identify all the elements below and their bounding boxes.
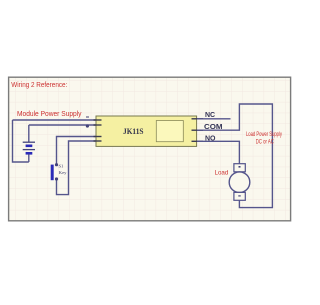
module inner box xyxy=(156,121,183,142)
dash mark after label xyxy=(86,116,89,118)
pin COM right xyxy=(192,129,204,131)
battery plate long 1 xyxy=(23,141,35,143)
switch contact top xyxy=(55,163,58,166)
battery plate long 2 xyxy=(23,149,35,151)
pin 2 left xyxy=(94,124,102,126)
motor bottom terminal box xyxy=(234,192,245,200)
wire NO to load xyxy=(197,141,239,163)
wire COM to right loop xyxy=(197,104,272,208)
relay module JK11S xyxy=(94,116,204,146)
svg-text:Key: Key xyxy=(59,170,67,175)
wire VCC top xyxy=(13,119,97,121)
wire switch upper xyxy=(57,137,97,165)
switch contact bottom xyxy=(55,177,58,180)
battery top lead xyxy=(28,125,30,142)
pin 1 left xyxy=(94,119,102,121)
wire battery plus xyxy=(29,124,96,126)
motor top polarity mark xyxy=(239,166,241,168)
svg-text:Module Power Supply: Module Power Supply xyxy=(17,109,82,118)
battery bottom lead xyxy=(28,154,30,162)
svg-text:DC or AC: DC or AC xyxy=(256,139,274,145)
motor body circle xyxy=(229,172,250,193)
pin NC right xyxy=(192,118,204,120)
switch S1 pushbutton xyxy=(51,163,67,181)
pin 4 left xyxy=(94,140,102,142)
wire left loop xyxy=(13,120,29,162)
node junction dot xyxy=(86,124,89,127)
svg-text:S1: S1 xyxy=(59,164,65,169)
module body xyxy=(96,116,197,146)
battery BT1 xyxy=(23,125,35,162)
wire switch lower xyxy=(57,141,97,195)
switch actuator bar xyxy=(51,165,54,181)
pin 3 left xyxy=(94,136,102,138)
svg-text:Load: Load xyxy=(215,169,229,176)
motor top terminal box xyxy=(234,164,245,172)
svg-text:Wiring 2 Reference:: Wiring 2 Reference: xyxy=(11,82,67,89)
schematic sheet xyxy=(9,77,291,221)
motor bottom polarity mark xyxy=(238,195,240,196)
wire NC stub xyxy=(197,118,231,120)
svg-text:JK11S: JK11S xyxy=(123,127,144,136)
motor load M1 xyxy=(229,164,250,201)
battery plate short 2 xyxy=(26,152,33,155)
pin NO right xyxy=(192,140,204,142)
svg-text:Load Power Supply: Load Power Supply xyxy=(246,131,283,138)
battery plate short 1 xyxy=(26,145,33,148)
